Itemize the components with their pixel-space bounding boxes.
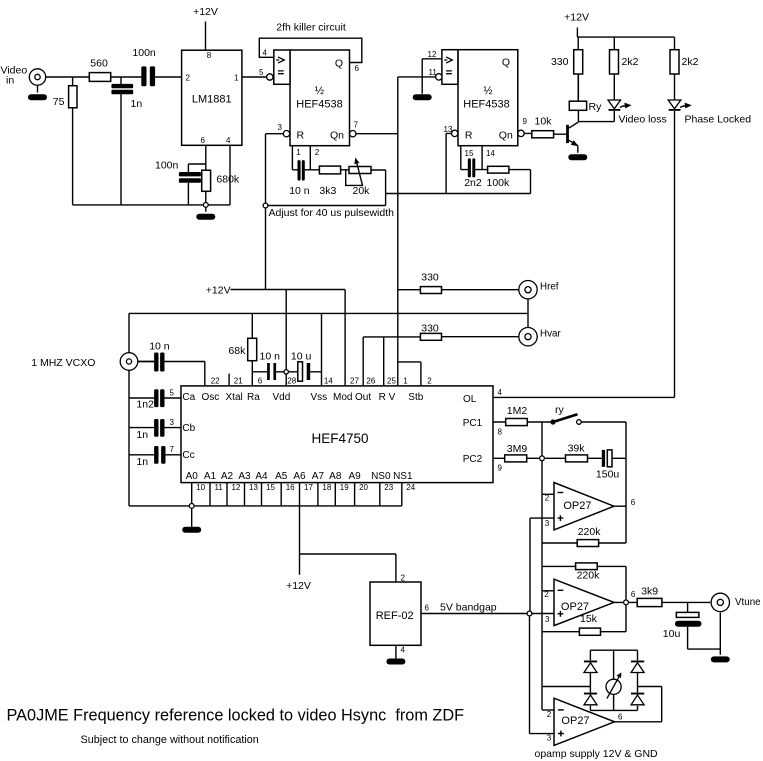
svg-text:Ry: Ry <box>589 101 603 113</box>
svg-text:2: 2 <box>427 377 432 386</box>
svg-text:Href: Href <box>540 282 559 293</box>
svg-text:6: 6 <box>355 64 360 73</box>
svg-text:15: 15 <box>465 149 474 158</box>
svg-text:OP27: OP27 <box>563 500 591 512</box>
svg-text:3: 3 <box>545 519 550 528</box>
svg-text:HEF4750: HEF4750 <box>311 431 368 446</box>
svg-text:10 n: 10 n <box>149 341 170 353</box>
svg-text:R: R <box>379 392 386 403</box>
svg-text:2: 2 <box>545 494 550 503</box>
svg-text:2k2: 2k2 <box>622 56 639 68</box>
svg-text:Osc: Osc <box>202 392 220 403</box>
svg-text:Cc: Cc <box>182 450 194 461</box>
svg-text:14: 14 <box>324 377 333 386</box>
svg-text:Mod: Mod <box>333 392 352 403</box>
svg-text:2: 2 <box>186 74 191 83</box>
svg-text:25: 25 <box>387 377 396 386</box>
svg-text:Subject to change without noti: Subject to change without notification <box>81 734 259 746</box>
svg-text:10u: 10u <box>663 628 681 640</box>
svg-text:10 u: 10 u <box>291 351 312 363</box>
svg-text:14: 14 <box>486 149 495 158</box>
svg-text:A7: A7 <box>312 471 325 482</box>
svg-text:Out: Out <box>355 392 371 403</box>
svg-text:28: 28 <box>287 377 296 386</box>
svg-text:13: 13 <box>444 125 453 134</box>
svg-text:6: 6 <box>258 377 263 386</box>
svg-text:2n2: 2n2 <box>464 177 482 189</box>
svg-text:PC1: PC1 <box>463 418 483 429</box>
svg-text:26: 26 <box>366 377 375 386</box>
svg-text:opamp supply 12V & GND: opamp supply 12V & GND <box>535 748 659 760</box>
svg-text:PA0JME Frequency reference loc: PA0JME Frequency reference locked to vid… <box>7 707 465 725</box>
svg-text:1M2: 1M2 <box>507 405 528 417</box>
svg-text:1n: 1n <box>136 429 148 441</box>
svg-text:560: 560 <box>90 58 108 70</box>
svg-text:4: 4 <box>263 49 268 58</box>
svg-text:100n: 100n <box>132 47 156 59</box>
svg-text:20k: 20k <box>353 185 371 197</box>
svg-text:10: 10 <box>196 483 205 492</box>
svg-text:A8: A8 <box>329 471 342 482</box>
svg-text:27: 27 <box>350 377 359 386</box>
svg-text:5: 5 <box>170 389 175 398</box>
svg-text:16: 16 <box>286 483 295 492</box>
svg-text:Vss: Vss <box>311 392 328 403</box>
svg-text:1: 1 <box>403 377 408 386</box>
svg-text:+12V: +12V <box>286 580 311 592</box>
svg-text:A3: A3 <box>238 471 251 482</box>
svg-text:12: 12 <box>232 483 241 492</box>
svg-text:V: V <box>389 392 396 403</box>
svg-text:68k: 68k <box>228 345 246 357</box>
svg-text:17: 17 <box>304 483 313 492</box>
svg-text:Ca: Ca <box>182 392 195 403</box>
svg-text:75: 75 <box>53 96 65 108</box>
svg-text:2: 2 <box>315 148 320 157</box>
svg-text:18: 18 <box>322 483 331 492</box>
svg-text:OP27: OP27 <box>561 601 589 613</box>
svg-text:1 MHZ VCXO: 1 MHZ VCXO <box>31 357 95 369</box>
svg-text:21: 21 <box>234 377 243 386</box>
svg-text:5V bandgap: 5V bandgap <box>440 602 497 614</box>
svg-text:5: 5 <box>259 68 264 77</box>
svg-text:330: 330 <box>421 272 439 284</box>
svg-text:7: 7 <box>170 445 175 454</box>
svg-text:1: 1 <box>234 74 239 83</box>
svg-text:6: 6 <box>631 498 636 507</box>
svg-text:in: in <box>6 75 14 87</box>
svg-text:22: 22 <box>211 377 220 386</box>
svg-text:19: 19 <box>340 483 349 492</box>
svg-text:½: ½ <box>315 85 324 97</box>
svg-text:3M9: 3M9 <box>507 443 528 455</box>
svg-text:Q: Q <box>502 57 510 69</box>
svg-text:6: 6 <box>618 713 623 722</box>
svg-text:15: 15 <box>266 483 275 492</box>
svg-text:ry: ry <box>555 404 564 416</box>
svg-text:2: 2 <box>544 590 549 599</box>
svg-text:8: 8 <box>207 51 212 60</box>
svg-text:220k: 220k <box>577 570 601 582</box>
svg-text:½: ½ <box>483 85 492 97</box>
svg-text:R: R <box>465 129 473 141</box>
svg-text:+12V: +12V <box>193 6 218 18</box>
svg-text:Hvar: Hvar <box>540 329 561 340</box>
svg-text:Phase Locked: Phase Locked <box>685 114 752 126</box>
svg-text:15k: 15k <box>580 613 598 625</box>
svg-text:REF-02: REF-02 <box>376 610 414 622</box>
svg-text:2: 2 <box>547 710 552 719</box>
svg-text:13: 13 <box>249 483 258 492</box>
svg-text:11: 11 <box>429 68 438 77</box>
svg-text:4: 4 <box>226 136 231 145</box>
svg-text:11: 11 <box>215 483 224 492</box>
svg-text:4: 4 <box>498 388 503 397</box>
svg-text:100n: 100n <box>155 160 179 172</box>
svg-text:LM1881: LM1881 <box>192 94 232 106</box>
svg-text:220k: 220k <box>578 526 602 538</box>
svg-text:39k: 39k <box>568 443 586 455</box>
svg-text:A2: A2 <box>221 471 234 482</box>
svg-text:3k3: 3k3 <box>319 185 336 197</box>
svg-text:330: 330 <box>421 323 439 335</box>
svg-text:680k: 680k <box>216 174 240 186</box>
svg-text:7: 7 <box>354 121 359 130</box>
svg-text:10k: 10k <box>535 116 553 128</box>
svg-text:Qn: Qn <box>499 129 513 141</box>
svg-text:HEF4538: HEF4538 <box>296 99 342 111</box>
svg-text:2: 2 <box>401 574 406 583</box>
svg-text:6: 6 <box>425 604 430 613</box>
svg-text:20: 20 <box>359 483 368 492</box>
svg-text:9: 9 <box>523 117 528 126</box>
svg-text:A5: A5 <box>275 471 288 482</box>
svg-text:Video loss: Video loss <box>619 114 667 126</box>
svg-text:100k: 100k <box>487 177 511 189</box>
svg-text:12: 12 <box>428 50 437 59</box>
svg-text:Vdd: Vdd <box>273 392 291 403</box>
svg-text:A9: A9 <box>348 471 361 482</box>
svg-text:OP27: OP27 <box>561 715 589 727</box>
svg-text:A0: A0 <box>186 471 199 482</box>
svg-text:+12V: +12V <box>564 12 589 24</box>
svg-text:3: 3 <box>545 615 550 624</box>
svg-text:A1: A1 <box>204 471 217 482</box>
svg-text:23: 23 <box>384 483 393 492</box>
svg-text:NS1: NS1 <box>393 471 413 482</box>
svg-text:1n2: 1n2 <box>136 399 154 411</box>
svg-text:OL: OL <box>463 394 477 405</box>
svg-text:9: 9 <box>498 464 503 473</box>
svg-text:HEF4538: HEF4538 <box>463 99 509 111</box>
svg-text:Ra: Ra <box>247 392 260 403</box>
svg-text:Qn: Qn <box>330 130 344 142</box>
svg-text:8: 8 <box>498 428 503 437</box>
svg-text:3: 3 <box>170 418 175 427</box>
svg-text:NS0: NS0 <box>371 471 391 482</box>
svg-text:1: 1 <box>296 148 301 157</box>
svg-text:A4: A4 <box>255 471 268 482</box>
svg-text:330: 330 <box>551 56 569 68</box>
svg-text:1n: 1n <box>131 98 143 110</box>
svg-text:1n: 1n <box>136 456 148 468</box>
svg-text:Cb: Cb <box>182 423 195 434</box>
svg-text:Xtal: Xtal <box>226 392 243 403</box>
svg-text:10 n: 10 n <box>289 185 310 197</box>
svg-text:3k9: 3k9 <box>641 586 658 598</box>
svg-text:PC2: PC2 <box>463 454 483 465</box>
svg-text:150u: 150u <box>596 469 620 481</box>
svg-text:Vtune: Vtune <box>735 597 761 608</box>
svg-text:Stb: Stb <box>408 392 423 403</box>
svg-text:3: 3 <box>278 123 283 132</box>
svg-text:10 n: 10 n <box>260 351 281 363</box>
svg-text:6: 6 <box>201 136 206 145</box>
svg-text:3: 3 <box>547 733 552 742</box>
svg-text:2fh killer circuit: 2fh killer circuit <box>276 22 346 34</box>
svg-text:R: R <box>297 130 305 142</box>
svg-text:A6: A6 <box>293 471 306 482</box>
svg-text:6: 6 <box>631 590 636 599</box>
svg-text:+12V: +12V <box>206 285 231 297</box>
svg-text:Adjust for 40 us pulsewidth: Adjust for 40 us pulsewidth <box>269 207 395 219</box>
svg-text:4: 4 <box>401 646 406 655</box>
svg-text:Q: Q <box>335 58 343 70</box>
svg-text:2k2: 2k2 <box>682 56 699 68</box>
svg-text:24: 24 <box>406 483 415 492</box>
